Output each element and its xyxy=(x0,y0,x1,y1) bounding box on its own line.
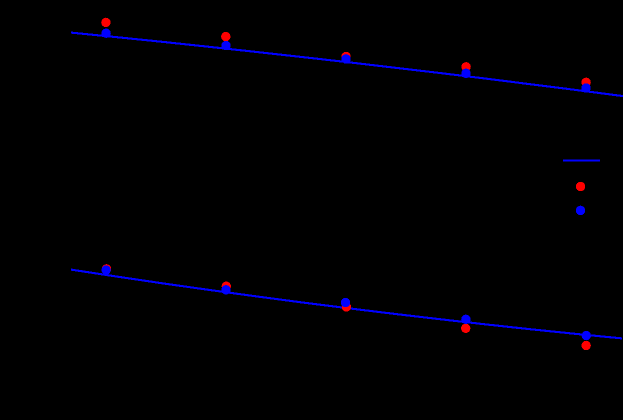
top series red points xyxy=(101,18,591,87)
legend: red point sample xyxy=(576,182,585,191)
top series blue points xyxy=(101,29,590,93)
bottom fit line (blue) xyxy=(71,270,622,339)
legend: fit line sample xyxy=(563,159,600,161)
bottom series red points xyxy=(102,264,591,350)
top fit line (blue) xyxy=(71,33,623,97)
legend: blue point sample xyxy=(576,206,585,215)
bottom series blue points xyxy=(102,265,592,340)
